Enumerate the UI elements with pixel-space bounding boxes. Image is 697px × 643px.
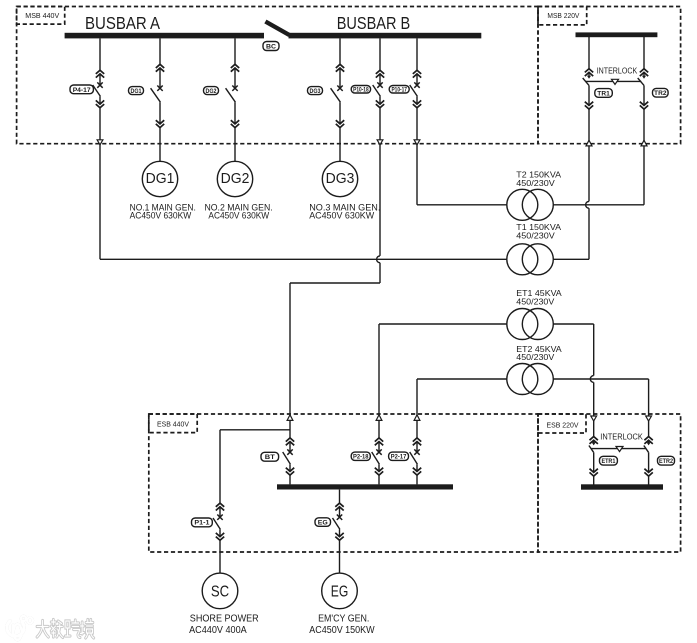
svg-text:SHORE POWER: SHORE POWER (190, 613, 259, 624)
svg-text:EM'CY GEN.: EM'CY GEN. (318, 613, 369, 624)
svg-text:ETR1: ETR1 (601, 458, 615, 465)
svg-text:ESB 220V: ESB 220V (547, 421, 579, 430)
svg-text:BUSBAR A: BUSBAR A (85, 13, 160, 33)
svg-text:EG: EG (331, 584, 349, 601)
svg-text:TR1: TR1 (597, 90, 610, 97)
svg-text:EG: EG (318, 519, 328, 526)
svg-text:P10-18: P10-18 (353, 86, 369, 93)
svg-text:DG3: DG3 (326, 170, 355, 187)
svg-text:ETR2: ETR2 (659, 458, 673, 465)
svg-text:SC: SC (211, 584, 229, 601)
svg-text:MSB 440V: MSB 440V (25, 11, 59, 20)
svg-text:INTERLOCK: INTERLOCK (597, 66, 638, 75)
svg-text:450/230V: 450/230V (516, 297, 554, 307)
svg-text:P4-17: P4-17 (73, 87, 91, 94)
svg-text:AC450V 630KW: AC450V 630KW (208, 211, 269, 221)
svg-text:450/230V: 450/230V (516, 230, 555, 240)
svg-text:BUSBAR B: BUSBAR B (337, 13, 411, 33)
svg-text:TR2: TR2 (654, 90, 667, 97)
svg-text:P2-17: P2-17 (391, 453, 407, 460)
svg-text:P10-17: P10-17 (391, 86, 407, 93)
svg-text:AC440V 400A: AC440V 400A (189, 625, 247, 636)
svg-text:AC450V 630KW: AC450V 630KW (309, 211, 374, 221)
svg-text:INTERLOCK: INTERLOCK (600, 432, 643, 441)
svg-text:450/230V: 450/230V (516, 352, 554, 362)
svg-text:DG2: DG2 (221, 170, 250, 187)
svg-text:DG3: DG3 (310, 88, 321, 95)
svg-text:BT: BT (265, 454, 276, 461)
svg-text:DG1: DG1 (131, 88, 142, 95)
svg-text:AC450V 150KW: AC450V 150KW (309, 625, 375, 636)
svg-text:AC450V 630KW: AC450V 630KW (130, 211, 192, 221)
svg-text:DG1: DG1 (146, 170, 175, 187)
svg-text:ESB 440V: ESB 440V (157, 419, 189, 428)
svg-text:DG2: DG2 (206, 88, 217, 95)
svg-text:P2-18: P2-18 (353, 453, 369, 460)
svg-text:MSB 220V: MSB 220V (547, 11, 579, 20)
svg-text:P1-1: P1-1 (194, 520, 209, 527)
svg-text:BC: BC (266, 43, 276, 50)
svg-text:450/230V: 450/230V (516, 178, 555, 188)
